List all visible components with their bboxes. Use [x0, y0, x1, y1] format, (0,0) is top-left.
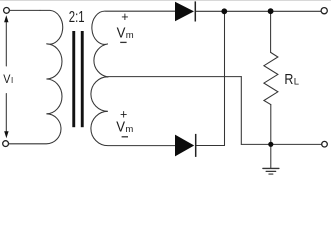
- transformer core bar left: [72, 31, 75, 127]
- node B: bottom-left input terminal: [3, 141, 9, 147]
- resistor RL top lead: [270, 11, 272, 52]
- voltage arrowhead up (VI): [4, 15, 8, 22]
- svg-text:R: R: [284, 72, 293, 88]
- voltage arrow VI upper segment: [5, 22, 7, 67]
- junction dot top rail right: [268, 8, 274, 14]
- wire: bottom diode cathode to vertical: [197, 145, 225, 147]
- node A: top-left input terminal: [4, 7, 10, 13]
- inductor L1: transformer primary winding: [9, 10, 63, 143]
- wire: top-left terminal to primary: [10, 9, 40, 11]
- junction dot top rail left: [221, 8, 227, 14]
- wire: top rail diode to terminal: [196, 10, 321, 12]
- svg-text:L: L: [294, 76, 299, 87]
- resistor RL bottom lead: [270, 105, 272, 145]
- svg-text:V: V: [116, 120, 125, 136]
- node C: top-right output terminal: [321, 8, 327, 14]
- inductor L2: secondary upper winding: [92, 11, 175, 77]
- label minus upper: [120, 41, 126, 43]
- svg-text:V: V: [117, 26, 126, 42]
- wire: center tap to right: [108, 76, 241, 78]
- wire: bottom output rail: [241, 143, 321, 145]
- inductor L3: secondary lower winding: [91, 77, 175, 146]
- ground stem: [270, 144, 272, 168]
- voltage arrow VI lower segment: [5, 94, 7, 133]
- node D: bottom-right output terminal: [322, 141, 328, 147]
- ground bar 1: [263, 167, 279, 169]
- junction dot bottom rail: [268, 142, 273, 147]
- ground bar 3: [269, 173, 273, 175]
- diode D1 cathode bar: [194, 1, 196, 21]
- diode D2 cathode bar: [195, 134, 197, 157]
- ground bar 2: [266, 170, 276, 172]
- resistor RL zigzag: [264, 53, 278, 105]
- scan edge noise top: [0, 0, 331, 2]
- wire: center tap vertical drop: [240, 77, 242, 145]
- transformer core bar right: [81, 31, 84, 127]
- svg-text:V: V: [3, 72, 10, 86]
- diode D2 triangle: [175, 135, 194, 157]
- label minus lower: [122, 136, 128, 138]
- svg-text:2:1: 2:1: [69, 9, 85, 26]
- wire: vertical from top rail to bottom diode rail: [224, 11, 226, 145]
- svg-text:m: m: [126, 30, 134, 41]
- diode D1 triangle: [175, 2, 194, 22]
- svg-text:m: m: [125, 124, 133, 135]
- svg-text:+: +: [121, 10, 128, 24]
- svg-text:I: I: [11, 76, 13, 85]
- voltage arrowhead down (VI): [4, 131, 8, 138]
